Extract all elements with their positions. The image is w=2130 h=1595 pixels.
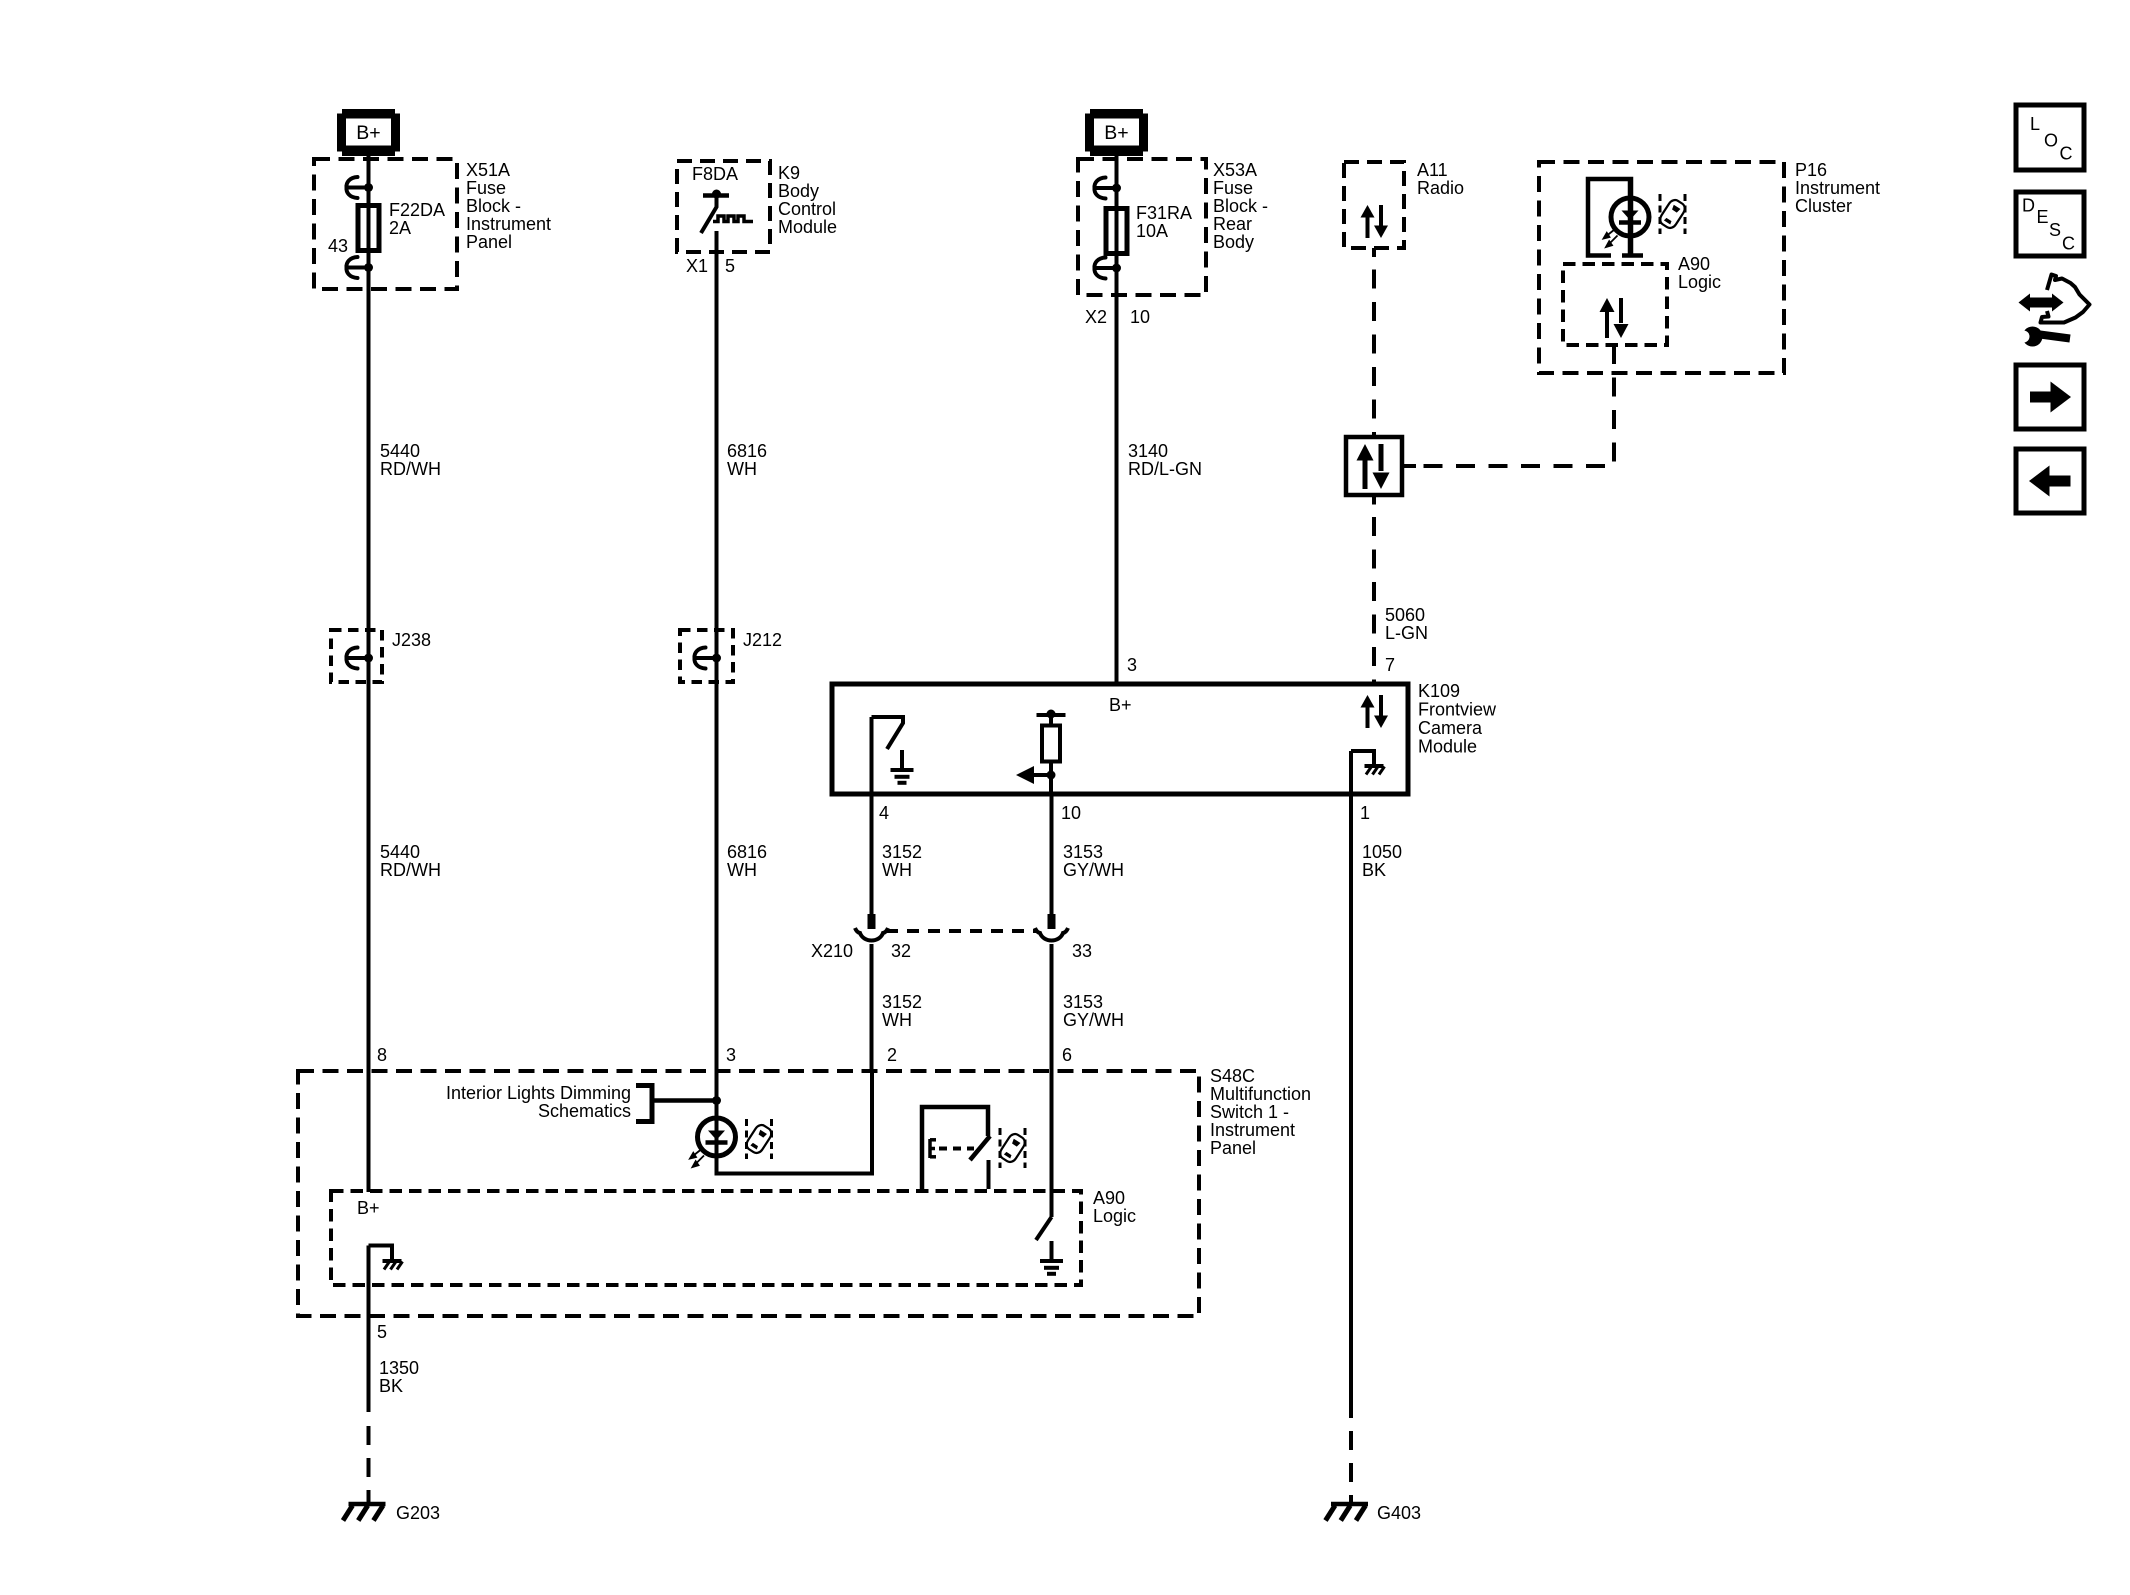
svg-text:5440: 5440 — [380, 441, 420, 461]
svg-text:A11: A11 — [1417, 160, 1448, 180]
svg-text:10: 10 — [1061, 803, 1081, 823]
svg-text:WH: WH — [727, 459, 757, 479]
svg-text:P16: P16 — [1795, 160, 1827, 180]
svg-text:Module: Module — [1418, 737, 1477, 757]
svg-text:6: 6 — [1062, 1045, 1072, 1065]
svg-text:32: 32 — [891, 941, 911, 961]
svg-text:1: 1 — [1360, 803, 1370, 823]
svg-text:6816: 6816 — [727, 842, 767, 862]
svg-text:1050: 1050 — [1362, 842, 1402, 862]
svg-text:3153: 3153 — [1063, 992, 1103, 1012]
svg-text:GY/WH: GY/WH — [1063, 860, 1124, 880]
svg-text:K109: K109 — [1418, 681, 1460, 701]
svg-text:3: 3 — [1127, 655, 1137, 675]
svg-text:B+: B+ — [1109, 695, 1132, 715]
svg-text:L-GN: L-GN — [1385, 623, 1428, 643]
svg-text:X1: X1 — [686, 256, 708, 276]
svg-text:F31RA: F31RA — [1136, 203, 1192, 223]
svg-text:10A: 10A — [1136, 221, 1168, 241]
svg-text:K9: K9 — [778, 163, 800, 183]
svg-text:4: 4 — [879, 803, 889, 823]
svg-text:WH: WH — [727, 860, 757, 880]
svg-text:WH: WH — [882, 1010, 912, 1030]
svg-text:S48C: S48C — [1210, 1066, 1255, 1086]
svg-text:3: 3 — [726, 1045, 736, 1065]
svg-text:Fuse: Fuse — [1213, 178, 1253, 198]
svg-text:Module: Module — [778, 217, 837, 237]
svg-text:O: O — [2044, 131, 2058, 151]
svg-text:2A: 2A — [389, 218, 411, 238]
svg-text:33: 33 — [1072, 941, 1092, 961]
svg-text:3152: 3152 — [882, 992, 922, 1012]
svg-text:Control: Control — [778, 199, 836, 219]
svg-text:X53A: X53A — [1213, 160, 1257, 180]
svg-text:Body: Body — [778, 181, 819, 201]
svg-text:G403: G403 — [1377, 1503, 1421, 1523]
svg-text:E: E — [2037, 207, 2049, 227]
svg-text:Instrument: Instrument — [466, 214, 551, 234]
svg-text:10: 10 — [1130, 307, 1150, 327]
svg-text:5: 5 — [725, 256, 735, 276]
svg-text:RD/WH: RD/WH — [380, 860, 441, 880]
svg-text:A90: A90 — [1678, 254, 1710, 274]
svg-text:Fuse: Fuse — [466, 178, 506, 198]
svg-text:F8DA: F8DA — [692, 164, 738, 184]
svg-text:Logic: Logic — [1678, 272, 1721, 292]
svg-text:43: 43 — [328, 236, 348, 256]
svg-text:Block -: Block - — [466, 196, 521, 216]
svg-text:J212: J212 — [743, 630, 782, 650]
svg-text:5440: 5440 — [380, 842, 420, 862]
svg-text:Panel: Panel — [1210, 1138, 1256, 1158]
svg-text:5060: 5060 — [1385, 605, 1425, 625]
svg-text:Instrument: Instrument — [1795, 178, 1880, 198]
svg-text:6816: 6816 — [727, 441, 767, 461]
svg-text:Block -: Block - — [1213, 196, 1268, 216]
svg-text:1350: 1350 — [379, 1358, 419, 1378]
svg-text:3153: 3153 — [1063, 842, 1103, 862]
svg-text:Schematics: Schematics — [538, 1101, 631, 1121]
svg-text:Panel: Panel — [466, 232, 512, 252]
svg-text:F22DA: F22DA — [389, 200, 445, 220]
svg-text:Interior Lights Dimming: Interior Lights Dimming — [446, 1083, 631, 1103]
svg-text:3140: 3140 — [1128, 441, 1168, 461]
svg-text:RD/L-GN: RD/L-GN — [1128, 459, 1202, 479]
svg-text:Radio: Radio — [1417, 178, 1464, 198]
svg-text:Camera: Camera — [1418, 718, 1483, 738]
svg-text:S: S — [2049, 220, 2061, 240]
svg-text:X210: X210 — [811, 941, 853, 961]
svg-text:8: 8 — [377, 1045, 387, 1065]
svg-text:Rear: Rear — [1213, 214, 1252, 234]
svg-text:X51A: X51A — [466, 160, 510, 180]
svg-text:WH: WH — [882, 860, 912, 880]
svg-text:C: C — [2060, 144, 2073, 164]
svg-text:L: L — [2030, 114, 2040, 134]
svg-text:BK: BK — [1362, 860, 1386, 880]
svg-text:Instrument: Instrument — [1210, 1120, 1295, 1140]
svg-text:RD/WH: RD/WH — [380, 459, 441, 479]
svg-text:J238: J238 — [392, 630, 431, 650]
svg-text:X2: X2 — [1085, 307, 1107, 327]
svg-text:GY/WH: GY/WH — [1063, 1010, 1124, 1030]
svg-text:7: 7 — [1385, 655, 1395, 675]
svg-text:Logic: Logic — [1093, 1206, 1136, 1226]
svg-text:3152: 3152 — [882, 842, 922, 862]
svg-text:Multifunction: Multifunction — [1210, 1084, 1311, 1104]
svg-text:C: C — [2062, 234, 2075, 254]
svg-text:2: 2 — [887, 1045, 897, 1065]
svg-text:5: 5 — [377, 1322, 387, 1342]
svg-text:D: D — [2022, 196, 2035, 216]
svg-text:Body: Body — [1213, 232, 1254, 252]
svg-text:Switch 1 -: Switch 1 - — [1210, 1102, 1289, 1122]
svg-text:BK: BK — [379, 1376, 403, 1396]
svg-text:A90: A90 — [1093, 1188, 1125, 1208]
svg-text:Frontview: Frontview — [1418, 700, 1497, 720]
svg-text:Cluster: Cluster — [1795, 196, 1852, 216]
svg-text:B+: B+ — [357, 1198, 380, 1218]
svg-text:G203: G203 — [396, 1503, 440, 1523]
